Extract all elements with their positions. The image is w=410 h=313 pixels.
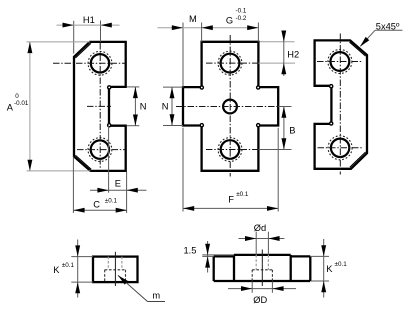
svg-text:±0.1: ±0.1	[335, 261, 348, 268]
svg-text:m: m	[152, 291, 160, 301]
middle view bottom hole horizontal centerline	[206, 149, 258, 151]
dimension F	[183, 128, 278, 212]
middle view bottom hole	[221, 140, 240, 159]
svg-text:-0.01: -0.01	[14, 100, 29, 107]
middle view corner dot top-right	[257, 86, 260, 89]
svg-text:H2: H2	[287, 49, 299, 59]
svg-text:F: F	[228, 194, 234, 204]
left view top hole horizontal centerline	[53, 62, 126, 64]
right view vertical centerline	[339, 34, 341, 175]
left view top hole	[91, 54, 109, 72]
dimension B	[258, 107, 295, 150]
middle view center hole horizontal centerline	[176, 106, 278, 108]
bottom middle view counterbore hidden lines	[252, 270, 272, 281]
right view outline	[315, 40, 367, 168]
svg-text:K: K	[326, 264, 333, 274]
dimension M	[158, 14, 259, 87]
bottom left side view rectangle	[93, 257, 138, 283]
dimension Od small	[239, 223, 285, 255]
thread leader m	[116, 274, 165, 302]
svg-text:N: N	[162, 102, 169, 112]
middle view outline	[183, 42, 278, 171]
svg-text:±0.1: ±0.1	[236, 191, 249, 198]
middle view corner dot top-left	[200, 86, 203, 89]
dimension N middle view	[162, 87, 183, 125]
middle view vertical centerline	[229, 35, 231, 177]
right view top chamfer edge line	[350, 42, 366, 56]
dimension N left view	[127, 87, 147, 126]
left view top hole thread circle	[88, 51, 112, 75]
bottom middle view thread hidden lines	[256, 255, 268, 270]
dimension K right	[311, 239, 347, 298]
right view top hole thread circle	[328, 50, 352, 74]
svg-text:Ød: Ød	[254, 223, 266, 233]
svg-text:N: N	[140, 101, 147, 111]
bottom middle view vertical centerline	[261, 250, 263, 287]
bottom left view thread hidden lines	[108, 257, 122, 270]
bottom left view counterbore hidden lines	[105, 270, 126, 282]
dimension 1.5	[184, 241, 235, 273]
right view top hole horizontal centerline	[317, 61, 362, 63]
left view bottom hole horizontal centerline	[77, 149, 126, 151]
svg-text:±0.1: ±0.1	[62, 262, 75, 269]
svg-text:1.5: 1.5	[184, 246, 197, 256]
left view vertical centerline	[99, 43, 101, 168]
right view bottom chamfer edge line	[350, 152, 366, 167]
left view notch corner dot top	[108, 86, 111, 89]
left view bottom hole	[91, 140, 109, 158]
bottom middle side view body	[214, 255, 311, 281]
svg-text:ØD: ØD	[253, 295, 267, 305]
left view bottom chamfer edge line	[75, 155, 91, 169]
right view notch corner dot bottom	[330, 122, 333, 125]
svg-text:H1: H1	[83, 15, 95, 25]
svg-text:E: E	[115, 178, 121, 188]
left view middle horizontal centerline	[87, 105, 111, 107]
svg-text:C: C	[93, 200, 100, 210]
left view notch corner dot bottom	[108, 124, 111, 127]
chamfer note 5x45	[358, 21, 402, 48]
dimension K left	[53, 240, 93, 298]
svg-text:±0.1: ±0.1	[105, 197, 118, 204]
middle view corner dot bottom-right	[257, 124, 260, 127]
dimension A	[7, 42, 91, 171]
middle view corner dot bottom-left	[200, 124, 203, 127]
dimension H2	[258, 31, 299, 77]
svg-text:M: M	[189, 14, 197, 24]
middle view top hole horizontal centerline	[206, 62, 258, 64]
middle view top hole thread circle	[218, 51, 242, 75]
middle view bottom hole thread circle	[218, 138, 242, 162]
svg-text:-0.2: -0.2	[236, 15, 247, 22]
right view bottom hole horizontal centerline	[318, 147, 363, 149]
svg-text:-0.1: -0.1	[236, 7, 247, 14]
svg-text:A: A	[7, 102, 14, 112]
svg-text:G: G	[226, 15, 233, 25]
svg-text:5x45º: 5x45º	[376, 21, 400, 31]
left view bottom hole thread circle	[88, 138, 112, 162]
dimension OD large	[228, 282, 296, 306]
right view bottom hole	[331, 139, 349, 157]
dimension C	[73, 157, 127, 214]
bottom left view vertical centerline	[114, 252, 116, 286]
middle view center hole	[223, 100, 237, 114]
middle view top hole	[221, 54, 240, 73]
right view bottom hole thread circle	[328, 136, 352, 160]
dimension G	[202, 7, 259, 41]
right view top hole	[331, 52, 350, 71]
left view outline	[74, 42, 126, 171]
svg-text:K: K	[53, 265, 60, 275]
dimension H1	[57, 15, 120, 54]
svg-text:B: B	[289, 126, 295, 136]
dimension E	[90, 126, 147, 213]
left view top chamfer edge line	[75, 43, 91, 58]
right view notch corner dot top	[330, 85, 333, 88]
svg-text:0: 0	[15, 93, 19, 100]
